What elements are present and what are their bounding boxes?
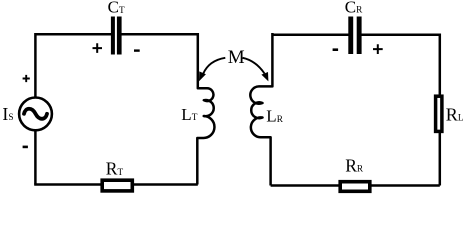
resistor R_R: [340, 182, 370, 192]
wire right-loop bottom: [271, 184, 440, 187]
polarity + of C_T: [93, 43, 103, 53]
wire left-loop left vertical lower: [34, 130, 37, 185]
M right arc: [243, 58, 265, 74]
polarity - of source: [23, 146, 28, 149]
resistor R_T: [102, 180, 132, 191]
wire left-loop bottom: [34, 183, 198, 186]
resistor R_L: [436, 96, 442, 131]
polarity - of C_T: [134, 49, 140, 51]
svg-text:M: M: [228, 47, 245, 68]
wire right-loop top: [272, 33, 439, 36]
polarity + of C_R: [373, 44, 383, 54]
wire right-loop right vertical lower: [439, 132, 442, 186]
polarity - of C_R: [333, 48, 339, 51]
wire left-loop left vertical upper: [34, 33, 37, 97]
inductor L_T (right side of left loop, bumps facing right): [197, 33, 214, 185]
capacitor C_T plates: [111, 17, 122, 55]
source I_S circle: [19, 98, 52, 131]
M right arrowhead: [261, 72, 268, 81]
source I_S sine wave: [24, 109, 47, 119]
capacitor C_R plates: [348, 17, 361, 55]
M left arc: [203, 58, 225, 74]
wire left-loop top: [35, 33, 197, 36]
wire right-loop right vertical upper: [439, 34, 442, 97]
polarity + of source: [23, 75, 30, 82]
inductor L_R (left side of right loop, bumps facing left): [250, 33, 272, 186]
M left arrowhead: [199, 71, 206, 81]
